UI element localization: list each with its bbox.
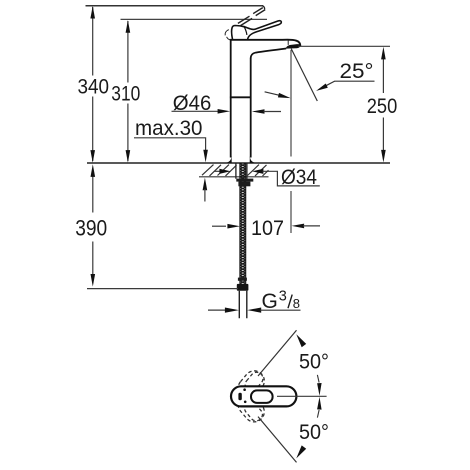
svg-text:250: 250	[367, 94, 398, 118]
threaded rod	[240, 163, 246, 284]
max.30 arrow up below deck	[203, 178, 208, 191]
washer below deck	[236, 179, 253, 182]
svg-text:25°: 25°	[340, 60, 374, 83]
top view handle capsule	[231, 386, 296, 406]
countertop deck top line	[87, 162, 390, 164]
faucet body right edge	[250, 58, 252, 158]
dimension line 390	[92, 176, 94, 275]
svg-text:3: 3	[279, 288, 287, 304]
upper 50deg arc arrow at center line	[317, 375, 319, 383]
body separator line	[230, 96, 252, 98]
swivel diagonal lower arrowhead	[296, 445, 306, 458]
motion squiggle upper	[225, 30, 229, 36]
top view dot upper	[243, 388, 246, 391]
107 dimension left arrow	[212, 225, 226, 227]
deck hatching left	[202, 165, 237, 176]
extension line 340 level (top)	[86, 5, 264, 7]
svg-text:G: G	[262, 290, 278, 313]
spout underside	[251, 49, 287, 59]
390 extension line bottom	[87, 288, 238, 290]
top view dot lower	[244, 401, 247, 404]
raised lever tip hook	[262, 6, 264, 10]
threaded shank outer tube	[236, 163, 247, 179]
svg-text:max.30: max.30	[135, 117, 203, 140]
107 dimension right arrow	[292, 224, 305, 229]
top view lever pad	[251, 390, 273, 403]
spout tip vertical extension line lower	[290, 191, 292, 233]
svg-text:390: 390	[75, 216, 107, 241]
top view center line	[277, 395, 327, 397]
spout tip vertical extension line upper	[290, 50, 292, 157]
aerator vertical line	[287, 40, 289, 45]
base flange left	[226, 156, 231, 163]
dimension line 250	[382, 59, 384, 152]
svg-text:Ø34: Ø34	[281, 166, 317, 189]
top view dashed handle upper position	[234, 367, 268, 403]
deck hatching right	[248, 165, 269, 176]
svg-text:107: 107	[251, 216, 284, 240]
250 extension line at spout	[298, 45, 390, 47]
swivel diagonal lower	[258, 417, 297, 463]
lower 50deg arc arrow at center line	[317, 410, 319, 418]
dimension line 310	[127, 21, 129, 161]
spout top	[230, 40, 300, 47]
Ø34 leader bracket	[263, 171, 320, 186]
dimension line 340	[92, 7, 94, 161]
svg-text:50°: 50°	[299, 351, 329, 374]
25 deg spray direction line	[291, 49, 317, 101]
G3/8 underline	[260, 309, 301, 311]
25 deg label leader	[326, 81, 335, 86]
lever joint inner line	[244, 26, 247, 35]
base flange right	[250, 156, 255, 163]
top view outlet bar	[238, 393, 241, 400]
countertop deck bottom line	[199, 176, 269, 178]
connection tube	[239, 291, 247, 319]
faucet body left edge	[230, 40, 232, 158]
svg-text:50°: 50°	[299, 421, 329, 444]
extension line 310 level	[121, 18, 268, 20]
swivel diagonal upper arrowhead	[296, 334, 306, 347]
lever handle with boss	[232, 21, 282, 40]
G3/8 right arrow	[247, 308, 261, 313]
Ø34 right arrow	[252, 169, 263, 174]
swivel diagonal upper	[258, 330, 297, 376]
Ø34 left arrow	[215, 170, 221, 172]
raised lever break slashes (lower pair)	[238, 16, 252, 25]
Ø46 leader and arrow	[172, 110, 220, 112]
25deg underline	[335, 80, 375, 82]
25 deg arc arrow at vertical line	[265, 92, 280, 96]
spout outlet dark wedge	[286, 44, 301, 49]
G3/8 left arrow	[208, 309, 225, 311]
max.30 leader underline	[134, 138, 206, 152]
svg-text:340: 340	[78, 75, 110, 99]
Ø46 right-side arrow	[252, 109, 265, 114]
top view dashed handle lower position	[234, 390, 268, 426]
connection nut	[237, 284, 249, 291]
lock nut below deck	[238, 182, 250, 187]
svg-text:8: 8	[293, 296, 300, 311]
raised lever break slashes (upper pair)	[253, 8, 265, 16]
svg-text:310: 310	[111, 81, 140, 105]
max.30 arrow down to deck	[203, 150, 208, 163]
motion squiggle lower	[227, 37, 231, 40]
hose collar	[238, 278, 247, 281]
